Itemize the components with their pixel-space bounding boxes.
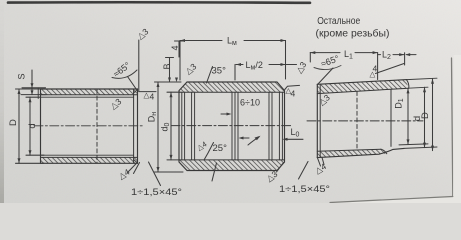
thread runout curl top	[407, 80, 409, 89]
left view right end face inner	[133, 89, 135, 163]
scan artifact: bottom page edge diagonal	[330, 197, 453, 203]
dim L1 hook	[309, 53, 311, 62]
central thread gap line a	[231, 92, 233, 160]
arrowhead L0	[283, 138, 288, 141]
dim L2 right extension	[404, 53, 406, 65]
scan artifact: left edge shading	[0, 0, 4, 203]
dim L0 line	[284, 138, 303, 140]
dim B line	[169, 58, 171, 83]
left end chamfer line a	[181, 92, 183, 160]
svg-text:1÷1,5×45°: 1÷1,5×45°	[279, 184, 330, 195]
dim S extension ticks	[22, 87, 46, 89]
dim d line	[424, 87, 426, 147]
left view bottom wall inner edge	[41, 156, 138, 158]
arrowhead L2 inside right	[399, 53, 404, 56]
arrow line 6-10 right	[241, 137, 249, 139]
left view thread boundary hidden line	[96, 90, 98, 164]
svg-text:4: 4	[291, 89, 296, 99]
V leader bottom right b	[134, 163, 140, 174]
left view left end inner face	[37, 88, 39, 99]
left view bottom bore line	[41, 154, 134, 156]
underline arc 65 deg right	[314, 66, 341, 70]
leader 65 deg right	[318, 68, 333, 84]
arrowheads d0	[170, 92, 173, 97]
dim d0 line	[170, 92, 172, 160]
arrowhead dim4	[175, 78, 178, 83]
left thread end line b	[194, 92, 196, 160]
svg-text:D: D	[420, 112, 431, 119]
dim 4 tick	[175, 40, 184, 42]
central thread gap line c	[237, 92, 239, 160]
svg-text:B: B	[162, 63, 172, 69]
thread length dashed line	[356, 92, 358, 149]
pipe bottom inner line	[317, 149, 381, 151]
dim D extension bottom	[16, 162, 45, 164]
dim D1 line	[407, 88, 409, 144]
pipe end face	[316, 84, 318, 157]
scan artifact: lighter backing outside page edge	[328, 55, 461, 203]
svg-text:D: D	[8, 119, 19, 126]
arrowheads D	[18, 89, 21, 94]
dim d extension top	[26, 96, 41, 98]
leader D3 bottom right	[277, 163, 284, 173]
bottom extension of outer line	[404, 147, 437, 148]
dim d line	[29, 97, 31, 155]
leader to chamfer text	[149, 162, 161, 186]
leader 25 deg	[204, 143, 214, 161]
dim Lm/2 center extension	[234, 65, 236, 81]
coupling outline	[179, 82, 285, 171]
dim L1 line	[310, 52, 377, 54]
pipe bottom wall hatch	[318, 149, 387, 157]
svg-text:1÷1,5×45°: 1÷1,5×45°	[131, 187, 182, 198]
V leader bottom left of pipe a	[318, 158, 321, 166]
arrowhead L2 outside left pointing	[405, 53, 410, 56]
arrowheads D1	[407, 88, 410, 93]
svg-text:4: 4	[373, 64, 378, 74]
left view outer bottom line	[41, 162, 138, 164]
coupling top wall inner edge	[180, 91, 285, 93]
dim Lm extension left	[179, 41, 181, 81]
svg-text:25°: 25°	[213, 143, 228, 154]
dim Lm extension right	[285, 41, 287, 80]
arrowhead 6-10 right	[239, 137, 244, 140]
pipe top inner line	[317, 88, 408, 93]
V leader bottom right a	[128, 163, 137, 172]
right thread end line b	[271, 92, 273, 160]
svg-text:6÷10: 6÷10	[240, 98, 260, 108]
dim Lm line	[180, 40, 286, 42]
central thread gap line b	[234, 92, 236, 160]
roughness flag line D4	[139, 91, 156, 93]
arrowheads S	[31, 83, 34, 88]
dim D extension top	[16, 88, 41, 90]
left view centerline	[34, 125, 144, 127]
dim D line	[18, 89, 20, 163]
right end chamfer line b	[281, 92, 283, 160]
left view right end chamfer bottom	[134, 160, 138, 164]
dim Dn line	[157, 82, 159, 172]
bottom extension of inner line	[399, 144, 428, 145]
arrowheads Dn	[157, 82, 160, 87]
left view bottom wall hatch	[41, 158, 137, 164]
V leader bottom left of pipe b	[322, 157, 324, 164]
pipe end chamfer line	[319, 85, 321, 157]
dim d extension bottom	[26, 154, 44, 156]
dim L1 right extension	[377, 53, 379, 80]
leader below middle view	[212, 163, 217, 181]
left view outer top line	[41, 88, 138, 90]
coupling bottom wall hatch	[179, 160, 285, 171]
dim S line	[31, 70, 33, 95]
coupling bottom wall inner edge	[180, 159, 285, 161]
leader 65 deg left	[128, 77, 137, 90]
leader 35 deg	[207, 67, 213, 84]
dim d0 extension bottom	[167, 159, 180, 161]
coupling centerline	[171, 125, 293, 127]
scan artifact: dark top edge line	[8, 1, 310, 4]
extension line up from right end	[138, 40, 140, 92]
arrowhead B	[168, 78, 171, 83]
thread runout curl bottom	[381, 149, 387, 154]
pipe centerline	[307, 120, 423, 122]
roughness D4 flag top right leader	[285, 85, 300, 89]
scan artifact: right page edge	[452, 58, 453, 197]
svg-text:d: d	[27, 123, 38, 128]
arrowheads Lm	[180, 39, 185, 42]
thread runout line	[390, 89, 392, 146]
dim Dn extension bottom	[155, 171, 184, 173]
dim 4 line	[178, 41, 180, 57]
svg-text:4: 4	[170, 45, 180, 50]
svg-text:4: 4	[150, 92, 155, 102]
pipe top wall hatch	[318, 80, 409, 94]
left end chamfer line b	[184, 92, 186, 160]
left view top bore line	[41, 96, 134, 98]
left view left end face	[40, 89, 42, 163]
left view top wall hatch	[41, 89, 137, 94]
dim d0 extension top	[167, 91, 180, 93]
dim L2 overrun with outside arrow	[407, 54, 417, 56]
pipe bottom outer line	[317, 148, 404, 157]
pipe top outer line	[317, 80, 407, 85]
left view right end face outer	[137, 89, 139, 163]
svg-text:(кроме резьбы): (кроме резьбы)	[316, 29, 390, 40]
top extension of outer line	[407, 78, 437, 79]
underline arc 65 deg left	[112, 70, 137, 78]
leader to chamfer text right	[299, 162, 309, 180]
svg-text:35°: 35°	[212, 66, 227, 77]
svg-text:Остальное: Остальное	[317, 16, 360, 27]
arrowhead 6-10 left	[227, 113, 232, 116]
dim B tick	[166, 57, 174, 59]
arrowheads D	[431, 79, 434, 84]
arrowheads L1	[310, 51, 315, 54]
dim L2 line	[378, 54, 405, 56]
left view top wall inner edge	[41, 94, 138, 96]
top extension of inner line	[409, 87, 429, 88]
svg-text:S: S	[17, 73, 27, 79]
coupling top wall hatch	[179, 82, 285, 92]
right end chamfer line a	[278, 92, 280, 160]
small chamfer arrow mark	[248, 137, 259, 145]
arrowheads d	[423, 87, 426, 92]
arrow line 6-10 left	[221, 113, 229, 115]
arrowheads Lm/2	[236, 63, 241, 66]
arrowheads d	[29, 97, 32, 102]
right thread end line a	[268, 92, 270, 160]
roughness D4 top leader	[376, 64, 405, 74]
dim Dn extension top	[155, 81, 182, 83]
left thread end line a	[191, 92, 193, 160]
left view right end chamfer top	[134, 89, 138, 93]
dim D line	[432, 79, 434, 151]
dim Lm/2 line	[236, 64, 297, 66]
